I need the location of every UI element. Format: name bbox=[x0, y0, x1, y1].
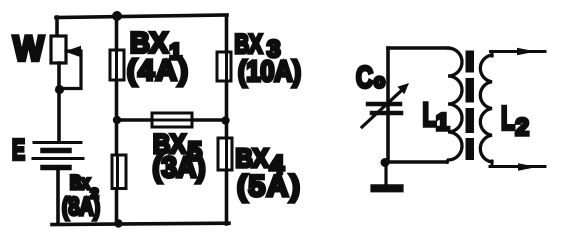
node: middle rail right junction bbox=[221, 116, 229, 124]
svg-text:1: 1 bbox=[436, 109, 449, 136]
fuse BX3 bbox=[217, 52, 231, 81]
label Cc bbox=[356, 60, 385, 95]
fuse BX4 bbox=[218, 138, 232, 170]
inductor L2 bbox=[480, 55, 492, 162]
svg-text:(4A): (4A) bbox=[127, 55, 189, 87]
svg-text:L: L bbox=[423, 96, 437, 133]
svg-text:(3A): (3A) bbox=[153, 152, 206, 184]
label BX3 bbox=[235, 29, 281, 63]
node: junction at capacitor bottom / ground bbox=[381, 158, 390, 167]
svg-text:BX: BX bbox=[235, 29, 263, 59]
node: junction below W bbox=[55, 85, 64, 94]
wire: L2 bottom lead with output arrow bbox=[490, 161, 545, 171]
resistor W (rheostat body) bbox=[51, 36, 66, 63]
wire: top of resonant loop (right circuit) bbox=[388, 46, 448, 50]
wire: battery bottom to bottom rail bbox=[56, 168, 60, 224]
svg-text:E: E bbox=[12, 135, 25, 167]
ground bbox=[375, 162, 400, 188]
label Bx2 bbox=[70, 173, 99, 201]
fuse BX5 bbox=[152, 113, 192, 127]
wire: top rail of left circuit bbox=[56, 15, 227, 18]
fuse BX1 bbox=[110, 50, 124, 80]
label L1 bbox=[423, 96, 450, 136]
label BX4 bbox=[236, 143, 285, 180]
svg-text:C: C bbox=[356, 60, 373, 95]
capacitor Cc (variable) bbox=[362, 83, 409, 127]
label (3A) bbox=[153, 152, 206, 184]
battery E bbox=[33, 143, 83, 168]
label (8A) bbox=[62, 193, 100, 221]
svg-text:W: W bbox=[13, 30, 44, 69]
svg-text:(10A): (10A) bbox=[238, 56, 301, 88]
wire: left vertical of loop through capacitor bbox=[386, 48, 390, 162]
fuse BX2 bbox=[112, 155, 126, 189]
label (5A) bbox=[237, 170, 301, 203]
wire: bottom rail of left circuit bbox=[52, 223, 229, 224]
svg-text:BX: BX bbox=[236, 143, 270, 173]
label BX5 bbox=[153, 129, 202, 166]
label L2 bbox=[501, 100, 529, 142]
svg-text:L: L bbox=[501, 100, 515, 137]
wire: junction to battery top bbox=[57, 88, 61, 142]
label W bbox=[13, 30, 44, 69]
wire: W bottom to tap junction bbox=[57, 63, 61, 88]
node: middle rail left junction bbox=[113, 116, 121, 124]
label BX1 bbox=[130, 28, 182, 65]
transformer core bbox=[466, 51, 475, 161]
label E bbox=[12, 135, 25, 167]
label (4A) bbox=[127, 55, 189, 87]
wire: L2 top lead with output arrow bbox=[491, 48, 546, 56]
svg-text:2: 2 bbox=[516, 114, 529, 141]
wire: middle rail between branches bbox=[117, 118, 226, 122]
wire: branch 1 vertical (BX1/BX2) bbox=[115, 16, 119, 224]
wire: right vertical rail (branch of BX3/BX4) bbox=[225, 16, 229, 224]
wire: bottom of resonant loop bbox=[383, 160, 447, 164]
wire: left vertical from top rail to rheostat W bbox=[55, 17, 59, 37]
inductor L1 bbox=[447, 48, 462, 162]
svg-text:(5A): (5A) bbox=[237, 170, 301, 203]
svg-text:(8A): (8A) bbox=[62, 193, 100, 221]
wire: rheostat W wiper tap loop bbox=[62, 46, 81, 89]
node: top rail junction at branch 1 bbox=[112, 11, 122, 21]
svg-text:c: c bbox=[374, 72, 385, 93]
svg-text:Bx: Bx bbox=[70, 173, 90, 194]
node: bottom rail junction at branch 1 bbox=[114, 219, 122, 227]
label (10A) bbox=[238, 56, 301, 88]
